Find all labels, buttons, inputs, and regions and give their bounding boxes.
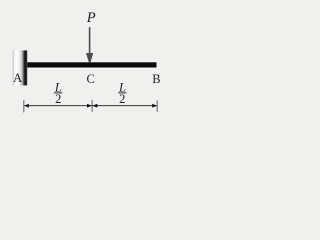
svg-text:2: 2 [55, 92, 61, 106]
extension tick center [91, 100, 93, 112]
fraction bar right [118, 92, 126, 94]
svg-text:P: P [86, 10, 96, 26]
extension tick left [23, 100, 25, 112]
fixed wall support at A [13, 50, 28, 85]
dim arrowhead left-end [24, 104, 29, 108]
dimension line right span [92, 105, 157, 107]
dim arrowhead center-right [93, 104, 98, 108]
beam A-B [27, 62, 156, 67]
svg-text:B: B [152, 72, 160, 86]
dimension line left span [24, 105, 92, 107]
dim arrowhead center-left [87, 104, 92, 108]
fraction bar left [54, 92, 62, 94]
load arrow shaft [89, 27, 91, 54]
load arrow head [86, 53, 93, 63]
svg-text:2: 2 [119, 92, 125, 106]
extension tick right [156, 100, 158, 112]
svg-text:C: C [87, 72, 95, 86]
dim arrowhead right-end [152, 104, 157, 108]
svg-text:A: A [13, 71, 22, 85]
